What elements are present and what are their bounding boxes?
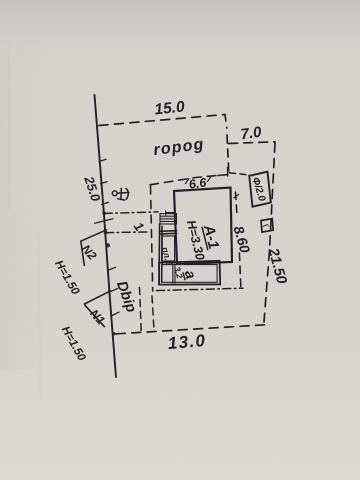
gate box F2.0 bbox=[249, 172, 271, 207]
yard corridor dashed east bbox=[152, 296, 154, 330]
fence hatch ticks bbox=[95, 159, 119, 315]
house plot inner dashed right upper (8.60) bbox=[236, 192, 237, 214]
dashed link to gate box bbox=[230, 173, 249, 175]
house plot inner dash-dot bottom bbox=[157, 288, 244, 290]
leader flag N2 bbox=[81, 230, 107, 265]
plot boundary NE vertical dashed bbox=[227, 135, 229, 171]
yard corridor dashed west bbox=[140, 288, 142, 334]
svg-text:13.0: 13.0 bbox=[167, 331, 207, 353]
leader flag N1 bbox=[85, 291, 111, 327]
house plot inner dashed right lower bbox=[239, 253, 241, 290]
svg-text:7.0: 7.0 bbox=[240, 124, 264, 144]
gate/wicket dash-dot line 1 bbox=[104, 212, 158, 214]
box g bbox=[261, 219, 273, 233]
plot boundary north dashed (15.0) bbox=[99, 115, 227, 129]
room pl.9 inner walls bbox=[162, 236, 174, 261]
house plot inner dashed top (6.6) bbox=[150, 175, 218, 184]
marker symbol (ring with ticks) bbox=[112, 188, 129, 200]
west annex outline bbox=[159, 224, 177, 285]
building A-1 outline bbox=[174, 188, 232, 265]
house plot inner dashed left bbox=[151, 186, 153, 291]
svg-text:15.0: 15.0 bbox=[154, 98, 186, 118]
dimension ticks 6.6 bbox=[186, 177, 239, 198]
paper creases bbox=[8, 0, 11, 210]
fence west boundary line bbox=[95, 95, 117, 377]
plot boundary 7.0 dashed bbox=[229, 142, 275, 144]
plot boundary south dashed (13.0) bbox=[114, 325, 265, 334]
inner corner piece NE bbox=[218, 168, 228, 177]
plot boundary east dashed bbox=[264, 143, 275, 322]
junction dots on fence bbox=[102, 211, 115, 335]
svg-text:6.6: 6.6 bbox=[188, 175, 208, 191]
gate/wicket dash-dot line 2 bbox=[106, 231, 150, 234]
south annex (room a) outline bbox=[159, 261, 220, 285]
porch steps bbox=[160, 211, 177, 224]
